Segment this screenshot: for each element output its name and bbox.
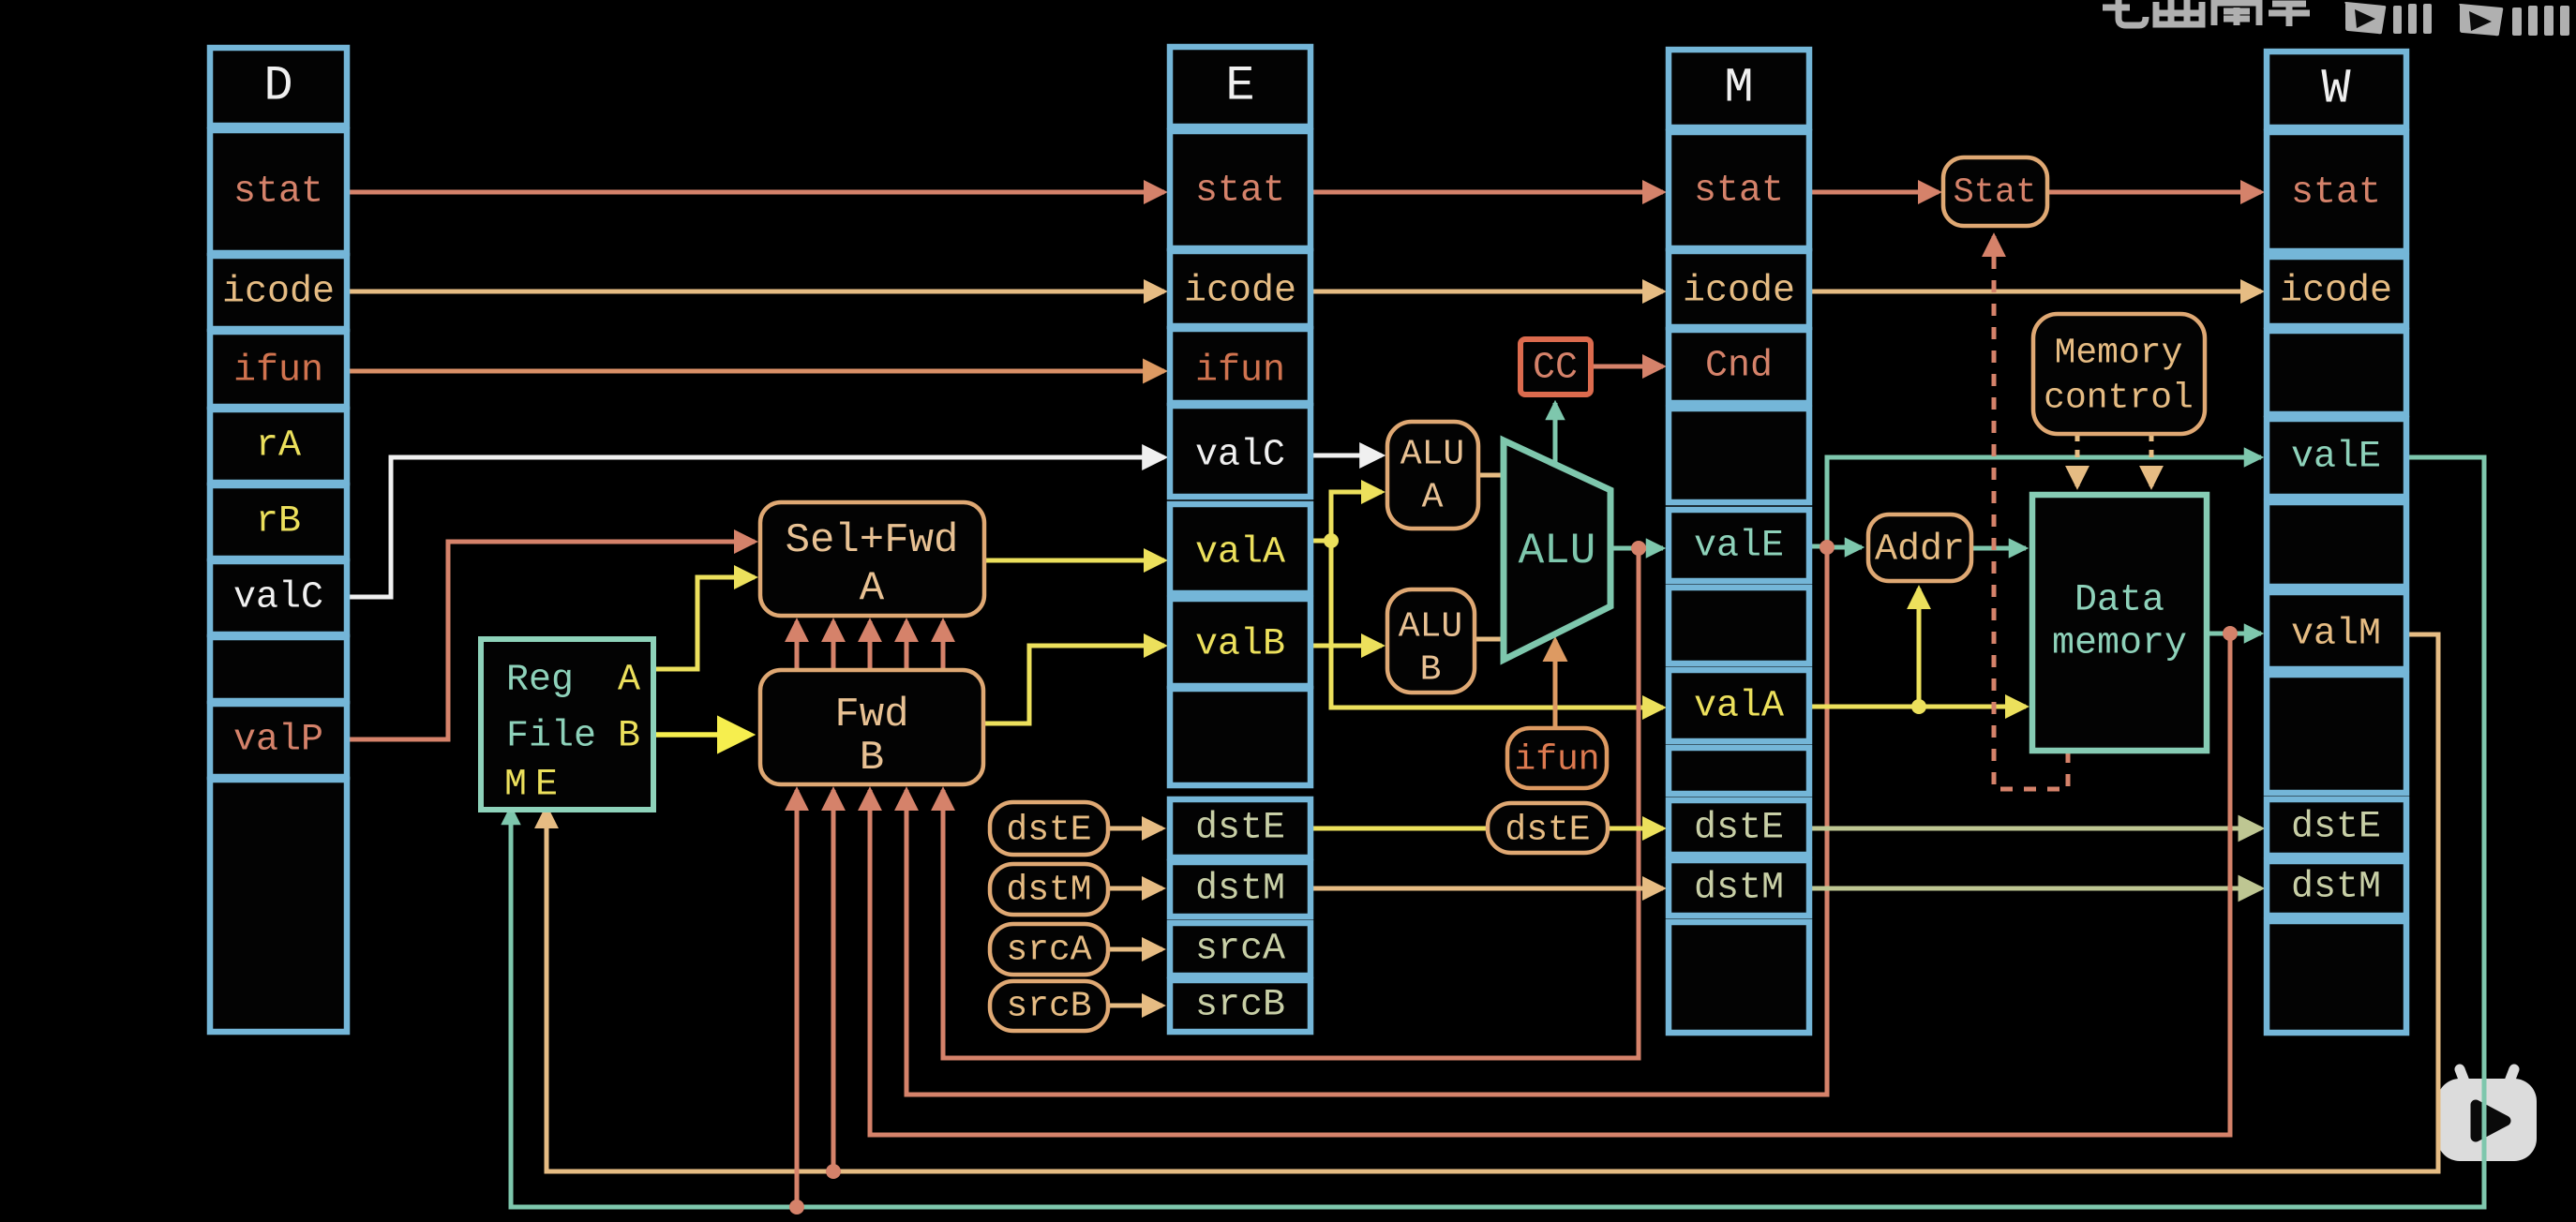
svg-text:ifun: ifun: [1195, 350, 1285, 393]
wire dstE pass box to M dstE: [1608, 827, 1663, 831]
wire e_valE forwarding loop: [943, 548, 1639, 1058]
decode output box dstM: [990, 864, 1108, 915]
svg-text:Data: Data: [2074, 580, 2164, 622]
functional block Reg File: [481, 639, 653, 810]
pipeline register E: [1170, 47, 1310, 1032]
svg-text:valE: valE: [1694, 526, 1784, 568]
wire fwd mux link 2: [831, 621, 836, 673]
svg-text:srcB: srcB: [1195, 985, 1285, 1027]
svg-text:W: W: [2321, 62, 2351, 117]
svg-text:srcA: srcA: [1195, 929, 1285, 971]
svg-text:ifun: ifun: [233, 350, 323, 393]
wire icode E to M: [1310, 290, 1663, 294]
svg-text:stat: stat: [2291, 172, 2381, 215]
svg-text:rA: rA: [256, 425, 301, 468]
svg-text:ALU: ALU: [1399, 607, 1462, 648]
wire E dstE to dstE pass box: [1310, 827, 1488, 831]
wire dstM decode to E: [1108, 887, 1162, 891]
wire Fwd B to E valB: [983, 646, 1164, 723]
svg-text:valB: valB: [1195, 624, 1285, 666]
wire valA branch to ALU A: [1331, 492, 1382, 541]
svg-text:ALU: ALU: [1400, 435, 1464, 475]
functional block Data memory: [2032, 495, 2207, 751]
wire memory control dashed 1: [2075, 434, 2080, 486]
svg-text:rB: rB: [256, 501, 301, 544]
wire Stat to W stat: [2047, 190, 2261, 195]
wire M valA to Data memory: [1809, 705, 2026, 709]
wire srcB decode to E: [1108, 1004, 1162, 1008]
functional block Stat: [1943, 157, 2047, 226]
svg-text:ifun: ifun: [1514, 740, 1599, 781]
svg-text:A: A: [1422, 478, 1444, 518]
wire Addr to Data memory: [1971, 546, 2026, 551]
wire E valB to ALU B: [1310, 644, 1382, 648]
svg-text:M: M: [1724, 61, 1753, 116]
svg-text:valA: valA: [1694, 686, 1784, 728]
functional block Fwd B: [760, 670, 983, 784]
svg-text:Reg: Reg: [506, 660, 574, 702]
wire E dstM to M dstM: [1310, 887, 1663, 891]
mux ALU B: [1387, 589, 1475, 693]
functional block Addr: [1868, 514, 1971, 581]
junction e_valE: [1631, 541, 1646, 556]
pipeline register W: [2267, 52, 2406, 1033]
functional block Sel+Fwd A: [760, 502, 984, 616]
svg-text:dstM: dstM: [1006, 871, 1091, 911]
svg-text:dstE: dstE: [1006, 811, 1091, 851]
pipeline register D: [210, 48, 347, 1032]
wire stat D to E: [347, 190, 1164, 195]
svg-text:dstE: dstE: [1694, 808, 1784, 850]
decode output box srcA: [990, 924, 1108, 975]
svg-text:valA: valA: [1195, 532, 1285, 574]
svg-text:Fwd: Fwd: [834, 692, 908, 738]
wire E valC to ALU A: [1310, 454, 1382, 458]
wire m_valM forwarding loop: [870, 633, 2230, 1135]
wire Reg File port B to Fwd B: [653, 732, 750, 738]
wire W valE writeback loop: [511, 457, 2484, 1207]
pass box dstE mid: [1488, 803, 1608, 853]
wire Sel+Fwd A to E valA: [984, 559, 1164, 563]
svg-text:CC: CC: [1533, 348, 1578, 390]
svg-text:Memory: Memory: [2055, 334, 2183, 374]
wire dstE decode to E: [1108, 827, 1162, 831]
junction valA to Addr: [1911, 699, 1926, 714]
wire M stat to Stat: [1809, 190, 1939, 195]
wire Data memory valM to W valM: [2207, 632, 2261, 636]
wire M_valE forwarding loop: [906, 547, 1827, 1095]
junction m_valM: [2223, 626, 2238, 641]
junction M_valE: [1820, 540, 1835, 555]
svg-text:E: E: [1225, 59, 1254, 114]
svg-text:dstM: dstM: [2291, 867, 2381, 909]
junction valA split: [1324, 533, 1339, 548]
svg-text:srcB: srcB: [1006, 987, 1091, 1027]
functional block Memory control: [2033, 314, 2205, 434]
wire fwd mux link 1: [795, 621, 800, 673]
svg-text:stat: stat: [1694, 171, 1784, 213]
svg-text:icode: icode: [2280, 271, 2392, 313]
wire W_valE forwarding branch: [795, 790, 800, 1207]
svg-text:valM: valM: [2291, 614, 2381, 656]
svg-text:M: M: [504, 765, 527, 807]
wire ifun D to E: [347, 369, 1164, 374]
svg-text:valP: valP: [233, 720, 323, 762]
junction W_valE branch: [789, 1200, 804, 1215]
svg-text:dstE: dstE: [1505, 811, 1590, 851]
svg-text:control: control: [2044, 379, 2194, 419]
wire W_valM forwarding branch: [831, 790, 836, 1171]
wire valA branch to M valA: [1331, 541, 1663, 708]
svg-text:icode: icode: [1184, 271, 1296, 313]
wire ALU A to ALU: [1478, 473, 1504, 478]
svg-text:icode: icode: [1683, 271, 1795, 313]
wire dstE M to W: [1809, 827, 2261, 831]
player tv icon: [2437, 1069, 2537, 1161]
wire ALU B to ALU: [1475, 637, 1504, 642]
svg-text:stat: stat: [1195, 171, 1285, 213]
svg-text:valC: valC: [233, 577, 323, 619]
wire ALU to CC: [1553, 403, 1558, 463]
svg-text:E: E: [535, 765, 558, 807]
svg-text:ALU: ALU: [1519, 527, 1596, 575]
svg-text:File: File: [506, 716, 596, 758]
svg-text:stat: stat: [233, 171, 323, 214]
wire valA branch to Addr: [1917, 589, 1922, 707]
ALU trapezoid: [1504, 440, 1610, 660]
svg-text:Cnd: Cnd: [1705, 346, 1773, 388]
svg-text:Sel+Fwd: Sel+Fwd: [786, 517, 959, 564]
wire M valE to Addr: [1827, 545, 1862, 550]
wire fwd mux link 5: [941, 621, 946, 673]
wire E valA stub: [1310, 539, 1331, 544]
svg-text:dstM: dstM: [1195, 869, 1285, 911]
svg-text:valE: valE: [2291, 437, 2381, 479]
pipeline register M: [1669, 50, 1809, 1033]
junction W_valM branch: [826, 1164, 841, 1179]
svg-text:Addr: Addr: [1875, 529, 1965, 572]
wire stat E to M: [1310, 190, 1663, 195]
wire dstM M to W: [1809, 887, 2261, 891]
watermark chinese characters: [2103, 0, 2310, 26]
wire CC to M Cnd: [1591, 365, 1663, 369]
svg-text:srcA: srcA: [1006, 931, 1091, 971]
wire srcA decode to E: [1108, 947, 1162, 952]
svg-text:A: A: [618, 660, 640, 702]
svg-text:dstE: dstE: [1195, 808, 1285, 850]
svg-text:memory: memory: [2052, 623, 2187, 665]
svg-text:B: B: [1420, 650, 1442, 691]
value box ifun: [1507, 728, 1607, 788]
wire fwd mux link 3: [868, 621, 873, 673]
wire ALU output to M valE: [1610, 546, 1663, 551]
wire Reg File port A to Sel+Fwd A: [653, 577, 755, 669]
wire M valE stub: [1809, 544, 1827, 549]
wire icode D to E: [347, 290, 1164, 294]
svg-text:A: A: [860, 565, 885, 612]
wire icode M to W: [1809, 290, 2261, 294]
decode output box dstE: [990, 802, 1108, 855]
wire ifun to ALU: [1553, 640, 1558, 728]
watermark bilibili logo: [2344, 2, 2569, 36]
wire valP D to Sel+Fwd A: [347, 542, 755, 739]
svg-text:D: D: [263, 59, 292, 114]
mux ALU A: [1387, 422, 1478, 529]
svg-text:icode: icode: [222, 272, 335, 314]
wire memory control dashed 2: [2149, 434, 2154, 486]
svg-text:dstE: dstE: [2291, 807, 2381, 849]
functional block CC: [1520, 339, 1591, 395]
svg-text:Stat: Stat: [1954, 173, 2037, 213]
decode output box srcB: [990, 981, 1108, 1031]
wire W valM writeback loop: [547, 634, 2438, 1171]
svg-text:valC: valC: [1195, 435, 1285, 477]
svg-text:dstM: dstM: [1694, 868, 1784, 910]
wire fwd mux link 4: [905, 621, 909, 673]
wire M valE to W valE: [1827, 457, 2261, 546]
wire valC D to E: [347, 457, 1164, 597]
svg-text:B: B: [860, 735, 884, 782]
svg-text:B: B: [618, 716, 640, 758]
wire mem stat dashed to Stat: [1994, 236, 2068, 789]
